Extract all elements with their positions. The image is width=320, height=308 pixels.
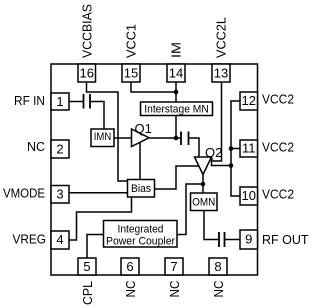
- wire capacitor to IMN: [90, 102, 104, 130]
- pin 14: [167, 64, 185, 82]
- wire RF IN pin1 to capacitor: [69, 101, 84, 103]
- net label VCC2L: [214, 17, 229, 58]
- svg-text:RF OUT: RF OUT: [262, 232, 309, 247]
- block Integrated Power Coupler: [104, 221, 178, 248]
- capacitor output DC block: [219, 232, 225, 247]
- net label IM: [169, 42, 184, 58]
- net label RF IN: [14, 93, 45, 108]
- net label VCC2 pin12: [262, 92, 294, 107]
- svg-text:13: 13: [214, 66, 228, 81]
- wire VCCBIAS pin16 to Bias: [87, 82, 128, 181]
- svg-text:NC: NC: [167, 281, 182, 298]
- pin 12: [240, 92, 258, 110]
- net label CPL: [80, 281, 95, 305]
- svg-text:RF IN: RF IN: [14, 93, 45, 108]
- pin 15: [122, 64, 140, 82]
- capacitor input DC block: [84, 94, 91, 109]
- transistor Q2: [195, 145, 223, 175]
- svg-text:7: 7: [170, 259, 177, 274]
- wire VCC2L pin13 to Q2 collector: [212, 82, 232, 166]
- svg-text:IMN: IMN: [94, 131, 112, 143]
- svg-text:VMODE: VMODE: [3, 185, 45, 200]
- svg-text:6: 6: [126, 259, 133, 274]
- wire IMN to Q1: [114, 137, 132, 139]
- net label VCC1: [124, 24, 139, 58]
- junction node pin15/pin14 rail: [174, 90, 179, 95]
- pin 11: [240, 140, 258, 157]
- net label VCC2 pin10: [262, 186, 294, 201]
- svg-text:VCC2: VCC2: [262, 139, 294, 154]
- svg-text:8: 8: [214, 259, 221, 274]
- junction node Q1 output: [174, 136, 179, 141]
- svg-text:VCC1: VCC1: [124, 24, 139, 58]
- wire Q1 to Bias: [139, 142, 141, 180]
- svg-text:NC: NC: [123, 281, 138, 298]
- svg-text:Interstage MN: Interstage MN: [144, 104, 209, 116]
- wire VCC1 pin15 rail: [131, 82, 176, 92]
- wire Q2 output to OMN: [202, 175, 204, 194]
- wire VMODE pin3 to Bias: [69, 192, 128, 194]
- svg-text:CPL: CPL: [80, 281, 95, 305]
- svg-text:VCC2: VCC2: [262, 186, 294, 201]
- svg-text:IM: IM: [169, 42, 184, 58]
- svg-text:12: 12: [242, 93, 256, 108]
- svg-text:Integrated: Integrated: [118, 223, 164, 235]
- wire CPL pin5 to power coupler: [87, 235, 104, 259]
- pin 13: [212, 64, 230, 82]
- svg-text:5: 5: [83, 259, 90, 274]
- wire OMN to output capacitor: [204, 211, 219, 240]
- net label VCCBIAS: [80, 4, 95, 58]
- svg-text:VCCBIAS: VCCBIAS: [80, 4, 95, 58]
- pin 7: [165, 258, 183, 275]
- wire VCC2 rail pins 12 11 10: [231, 101, 240, 196]
- net label NC pin7: [167, 281, 182, 298]
- wire IM pin14 to Interstage MN: [175, 82, 177, 102]
- block OMN: [191, 193, 218, 211]
- pin 3: [51, 186, 69, 204]
- svg-text:Bias: Bias: [131, 183, 151, 195]
- net label RF OUT: [262, 232, 309, 247]
- svg-text:Power Coupler: Power Coupler: [106, 235, 175, 247]
- pin 6: [121, 258, 139, 275]
- svg-text:10: 10: [242, 188, 256, 203]
- svg-text:Q2: Q2: [205, 145, 222, 160]
- wire Bias to Q2: [155, 166, 199, 189]
- pin 16: [78, 64, 96, 82]
- svg-text:1: 1: [56, 94, 63, 109]
- wire Q2 output to power coupler: [177, 184, 203, 235]
- svg-text:NC: NC: [211, 281, 226, 298]
- net label NC pin2: [27, 139, 45, 154]
- block IMN: [91, 129, 114, 147]
- net label NC pin8: [211, 281, 226, 298]
- IC package outline: [51, 64, 258, 275]
- svg-text:VCC2L: VCC2L: [214, 17, 229, 58]
- svg-text:9: 9: [245, 232, 252, 247]
- svg-text:16: 16: [80, 66, 94, 81]
- svg-text:OMN: OMN: [192, 197, 215, 209]
- block Interstage MN: [141, 102, 213, 116]
- pin 2: [51, 140, 69, 158]
- capacitor interstage DC block: [181, 132, 189, 146]
- pin 9: [240, 230, 258, 249]
- junction node Q2 output: [201, 182, 206, 187]
- net label VREG: [13, 232, 47, 247]
- svg-text:VCC2: VCC2: [262, 92, 294, 107]
- svg-text:2: 2: [56, 142, 63, 157]
- wire capacitor to RF OUT pin9: [225, 239, 241, 241]
- wire capacitor to Q2 input: [189, 138, 200, 157]
- wire VREG pin4 to Bias: [69, 197, 132, 240]
- pin 1: [51, 93, 69, 110]
- junction node VCC2 pin11: [229, 146, 234, 151]
- net label VCC2 pin11: [262, 139, 294, 154]
- net label VMODE: [3, 185, 45, 200]
- block Bias: [128, 180, 155, 198]
- svg-text:VREG: VREG: [13, 232, 47, 247]
- wire Q1 output: [149, 137, 181, 139]
- svg-text:14: 14: [169, 66, 183, 81]
- wire Interstage MN bottom: [175, 116, 177, 139]
- svg-text:4: 4: [56, 232, 63, 247]
- svg-text:Q1: Q1: [135, 121, 152, 136]
- svg-text:NC: NC: [27, 139, 45, 154]
- svg-text:11: 11: [242, 141, 256, 156]
- pin 8: [209, 258, 227, 275]
- transistor Q1: [132, 121, 152, 147]
- svg-text:3: 3: [56, 187, 63, 202]
- junction node VCC2 collector tie: [229, 163, 234, 168]
- pin 5: [78, 258, 96, 275]
- net label NC pin6: [123, 281, 138, 298]
- pin 4: [51, 231, 69, 249]
- svg-text:15: 15: [124, 66, 138, 81]
- pin 10: [240, 187, 258, 205]
